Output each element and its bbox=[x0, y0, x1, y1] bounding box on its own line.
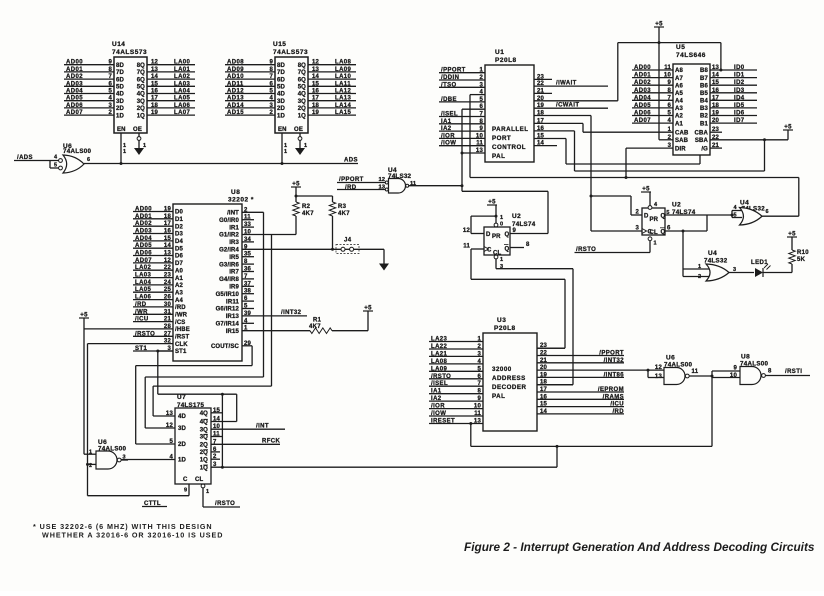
svg-text:AD07: AD07 bbox=[135, 258, 152, 264]
svg-text:AD05: AD05 bbox=[135, 243, 152, 249]
svg-text:U5: U5 bbox=[676, 44, 685, 51]
svg-text:CBA: CBA bbox=[695, 130, 709, 136]
svg-text:U15: U15 bbox=[273, 41, 286, 48]
svg-text:2Q: 2Q bbox=[200, 450, 208, 456]
svg-text:3D: 3D bbox=[277, 99, 285, 105]
svg-text:13: 13 bbox=[655, 374, 663, 380]
svg-text:AD01: AD01 bbox=[135, 214, 152, 220]
svg-text:C: C bbox=[183, 477, 188, 483]
svg-text:AD00: AD00 bbox=[135, 207, 152, 213]
svg-text:D2: D2 bbox=[175, 224, 183, 230]
svg-text:74LS32: 74LS32 bbox=[704, 258, 728, 265]
svg-text:IA1: IA1 bbox=[441, 119, 452, 125]
svg-text:9: 9 bbox=[513, 228, 517, 234]
svg-text:/ISEL: /ISEL bbox=[441, 112, 458, 118]
svg-text:R3: R3 bbox=[338, 204, 347, 210]
svg-text:/HBE: /HBE bbox=[175, 327, 190, 333]
svg-text:LA15: LA15 bbox=[335, 110, 352, 116]
svg-text:12: 12 bbox=[151, 60, 159, 66]
svg-text:D1: D1 bbox=[175, 217, 183, 223]
svg-text:8D: 8D bbox=[277, 63, 285, 69]
svg-text:0: 0 bbox=[500, 222, 503, 228]
svg-text:2D: 2D bbox=[178, 442, 186, 448]
svg-text:/IWAIT: /IWAIT bbox=[556, 81, 577, 87]
svg-text:B4: B4 bbox=[700, 99, 708, 105]
svg-text:25: 25 bbox=[164, 287, 172, 293]
svg-text:6Q: 6Q bbox=[137, 77, 145, 83]
svg-text:IR13: IR13 bbox=[226, 314, 240, 320]
svg-text:31: 31 bbox=[164, 309, 172, 315]
svg-text:AD14: AD14 bbox=[227, 103, 244, 109]
svg-text:C: C bbox=[648, 230, 653, 236]
svg-text:A7: A7 bbox=[675, 76, 683, 82]
svg-text:IA2: IA2 bbox=[441, 126, 452, 132]
svg-text:A3: A3 bbox=[675, 106, 683, 112]
svg-text:1D: 1D bbox=[277, 113, 285, 119]
svg-text:1D: 1D bbox=[116, 113, 124, 119]
svg-text:LA05: LA05 bbox=[135, 287, 152, 293]
svg-text:D6: D6 bbox=[175, 254, 183, 260]
svg-text:5: 5 bbox=[734, 213, 737, 219]
svg-text:AD03: AD03 bbox=[634, 88, 651, 94]
svg-text:2: 2 bbox=[635, 210, 639, 216]
svg-text:6Q: 6Q bbox=[298, 77, 306, 83]
svg-text:17: 17 bbox=[164, 221, 172, 227]
svg-text:LA12: LA12 bbox=[335, 89, 352, 95]
svg-text:AD06: AD06 bbox=[135, 251, 152, 257]
svg-text:32202 *: 32202 * bbox=[228, 197, 254, 204]
svg-text:19: 19 bbox=[312, 110, 320, 116]
svg-text:/RD: /RD bbox=[175, 305, 186, 311]
svg-text:LA03: LA03 bbox=[135, 273, 152, 279]
svg-text:15: 15 bbox=[164, 236, 172, 242]
svg-text:LA00: LA00 bbox=[174, 60, 191, 66]
svg-text:IA2: IA2 bbox=[431, 396, 442, 402]
svg-text:B1: B1 bbox=[700, 121, 708, 127]
svg-text:LA08: LA08 bbox=[431, 359, 448, 365]
svg-text:/DDIN: /DDIN bbox=[441, 75, 459, 81]
svg-text:/PPORT: /PPORT bbox=[599, 351, 624, 357]
svg-text:/CS: /CS bbox=[175, 320, 185, 326]
svg-text:LA10: LA10 bbox=[335, 74, 352, 80]
svg-text:ID7: ID7 bbox=[734, 118, 745, 124]
svg-text:/CWAIT: /CWAIT bbox=[556, 103, 579, 109]
svg-text:8: 8 bbox=[667, 88, 671, 94]
svg-text:LA02: LA02 bbox=[174, 74, 191, 80]
svg-text:LA01: LA01 bbox=[174, 67, 191, 73]
svg-text:1: 1 bbox=[500, 257, 503, 263]
svg-text:/IOR: /IOR bbox=[431, 404, 445, 410]
svg-text:/INT32: /INT32 bbox=[604, 358, 625, 364]
svg-text:4Q: 4Q bbox=[298, 92, 306, 98]
svg-text:AD04: AD04 bbox=[634, 95, 651, 101]
svg-text:R10: R10 bbox=[797, 250, 809, 256]
svg-text:12: 12 bbox=[379, 177, 385, 183]
svg-text:A1: A1 bbox=[175, 276, 183, 282]
svg-text:15: 15 bbox=[151, 81, 159, 87]
svg-text:LA04: LA04 bbox=[174, 89, 191, 95]
svg-text:AD12: AD12 bbox=[227, 89, 244, 95]
svg-text:9: 9 bbox=[667, 80, 671, 86]
svg-text:8: 8 bbox=[526, 242, 530, 248]
svg-text:AD02: AD02 bbox=[135, 221, 152, 227]
svg-text:ID4: ID4 bbox=[734, 95, 745, 101]
svg-text:LA06: LA06 bbox=[174, 103, 191, 109]
svg-text:14: 14 bbox=[712, 73, 720, 79]
svg-text:G5/IR10: G5/IR10 bbox=[216, 292, 240, 298]
svg-text:OE: OE bbox=[133, 127, 142, 133]
svg-text:10: 10 bbox=[474, 404, 482, 410]
svg-text:9: 9 bbox=[477, 396, 481, 402]
svg-text:4Q: 4Q bbox=[200, 420, 208, 426]
svg-text:LA21: LA21 bbox=[431, 351, 448, 357]
svg-text:14: 14 bbox=[312, 74, 320, 80]
svg-text:18: 18 bbox=[151, 103, 159, 109]
svg-text:8D: 8D bbox=[116, 63, 124, 69]
svg-text:2Q: 2Q bbox=[137, 106, 145, 112]
svg-text:12: 12 bbox=[655, 365, 663, 371]
svg-text:8Q: 8Q bbox=[137, 63, 145, 69]
svg-text:AD00: AD00 bbox=[634, 65, 651, 71]
svg-text:7: 7 bbox=[667, 95, 671, 101]
svg-text:IR9: IR9 bbox=[229, 285, 239, 291]
svg-text:3: 3 bbox=[108, 103, 112, 109]
svg-text:AD03: AD03 bbox=[66, 81, 83, 87]
svg-text:1: 1 bbox=[123, 149, 126, 155]
svg-text:B5: B5 bbox=[700, 91, 708, 97]
svg-text:AD02: AD02 bbox=[634, 80, 651, 86]
svg-text:EN: EN bbox=[117, 127, 126, 133]
svg-text:Q: Q bbox=[505, 247, 510, 253]
svg-text:3Q: 3Q bbox=[200, 427, 208, 433]
svg-text:/INT32: /INT32 bbox=[281, 310, 302, 316]
svg-text:PARALLEL: PARALLEL bbox=[492, 126, 529, 133]
svg-text:U8: U8 bbox=[741, 354, 750, 361]
svg-text:AD01: AD01 bbox=[66, 67, 83, 73]
svg-text:P20L8: P20L8 bbox=[495, 57, 517, 64]
svg-text:4: 4 bbox=[477, 359, 481, 365]
svg-text:16: 16 bbox=[312, 89, 320, 95]
svg-text:16: 16 bbox=[151, 89, 159, 95]
svg-text:11: 11 bbox=[474, 411, 481, 417]
svg-text:DIR: DIR bbox=[675, 146, 686, 152]
svg-text:D4: D4 bbox=[175, 239, 183, 245]
svg-text:7D: 7D bbox=[277, 70, 285, 76]
svg-text:OE: OE bbox=[294, 127, 303, 133]
svg-text:A8: A8 bbox=[675, 68, 683, 74]
svg-text:U1: U1 bbox=[495, 49, 504, 56]
svg-text:23: 23 bbox=[164, 273, 172, 279]
svg-text:LA04: LA04 bbox=[135, 280, 152, 286]
svg-text:/RSTI: /RSTI bbox=[785, 369, 802, 375]
svg-text:7Q: 7Q bbox=[137, 70, 145, 76]
svg-text:2: 2 bbox=[269, 110, 273, 116]
svg-text:AD09: AD09 bbox=[227, 67, 244, 73]
svg-text:LA23: LA23 bbox=[431, 337, 448, 343]
svg-text:IR11: IR11 bbox=[226, 299, 239, 305]
svg-text:B3: B3 bbox=[700, 106, 708, 112]
svg-text:74LS646: 74LS646 bbox=[676, 52, 706, 59]
svg-text:5Q: 5Q bbox=[137, 85, 145, 91]
svg-text:AD06: AD06 bbox=[66, 103, 83, 109]
svg-text:AD07: AD07 bbox=[634, 118, 651, 124]
svg-text:4Q: 4Q bbox=[137, 92, 145, 98]
svg-text:9: 9 bbox=[269, 60, 273, 66]
svg-text:2Q: 2Q bbox=[298, 106, 306, 112]
svg-text:IR5: IR5 bbox=[229, 255, 239, 261]
svg-text:16: 16 bbox=[712, 88, 720, 94]
svg-text:/INT: /INT bbox=[227, 211, 239, 217]
svg-text:8: 8 bbox=[269, 67, 273, 73]
svg-text:U2: U2 bbox=[512, 213, 521, 220]
svg-text:19: 19 bbox=[151, 110, 159, 116]
svg-text:D5: D5 bbox=[175, 246, 183, 252]
svg-text:14: 14 bbox=[164, 243, 172, 249]
svg-text:AD04: AD04 bbox=[66, 89, 83, 95]
svg-text:6: 6 bbox=[667, 226, 671, 232]
svg-text:CAB: CAB bbox=[675, 130, 689, 136]
svg-text:J4: J4 bbox=[344, 238, 352, 244]
svg-text:LA03: LA03 bbox=[174, 81, 191, 87]
svg-text:AD15: AD15 bbox=[227, 110, 244, 116]
svg-text:1: 1 bbox=[284, 149, 287, 155]
svg-text:U4: U4 bbox=[708, 250, 717, 257]
svg-text:G6/IR12: G6/IR12 bbox=[216, 307, 240, 313]
svg-text:IR1: IR1 bbox=[229, 225, 239, 231]
svg-text:IR15: IR15 bbox=[226, 329, 240, 335]
svg-text:/RSTO: /RSTO bbox=[431, 374, 451, 380]
svg-text:AD10: AD10 bbox=[227, 74, 244, 80]
svg-text:AD07: AD07 bbox=[66, 110, 83, 116]
svg-text:A2: A2 bbox=[175, 283, 183, 289]
svg-text:1: 1 bbox=[654, 241, 657, 247]
svg-text:AD06: AD06 bbox=[634, 111, 651, 117]
svg-text:13: 13 bbox=[151, 67, 159, 73]
svg-text:/WR: /WR bbox=[175, 313, 188, 319]
svg-text:LA13: LA13 bbox=[335, 96, 352, 102]
svg-text:4D: 4D bbox=[116, 92, 124, 98]
svg-text:20: 20 bbox=[712, 118, 720, 124]
svg-text:6: 6 bbox=[477, 374, 481, 380]
svg-text:11: 11 bbox=[463, 244, 470, 250]
svg-text:G4/IR8: G4/IR8 bbox=[219, 277, 239, 283]
svg-text:D: D bbox=[644, 214, 649, 220]
svg-text:3: 3 bbox=[635, 226, 639, 232]
svg-text:15: 15 bbox=[712, 80, 720, 86]
svg-text:11: 11 bbox=[692, 369, 699, 375]
svg-text:CONTROL: CONTROL bbox=[492, 144, 526, 151]
svg-text:4K7: 4K7 bbox=[338, 211, 350, 217]
svg-text:U14: U14 bbox=[112, 41, 125, 48]
svg-text:IRESET: IRESET bbox=[431, 419, 455, 425]
svg-text:5K: 5K bbox=[797, 257, 806, 263]
svg-text:PAL: PAL bbox=[492, 393, 505, 400]
svg-text:18: 18 bbox=[164, 214, 172, 220]
svg-text:/RSTO: /RSTO bbox=[135, 331, 155, 337]
svg-text:A2: A2 bbox=[675, 114, 683, 120]
svg-text:7: 7 bbox=[269, 74, 273, 80]
svg-text:G7/IR14: G7/IR14 bbox=[216, 322, 240, 328]
svg-text:B8: B8 bbox=[700, 68, 708, 74]
svg-text:30: 30 bbox=[164, 302, 172, 308]
svg-text:A4: A4 bbox=[175, 298, 183, 304]
svg-text:2: 2 bbox=[698, 274, 701, 280]
svg-text:32000: 32000 bbox=[492, 366, 512, 373]
svg-text:IR3: IR3 bbox=[229, 240, 239, 246]
svg-text:1Q: 1Q bbox=[298, 113, 306, 119]
svg-text:D3: D3 bbox=[175, 232, 183, 238]
svg-text:18: 18 bbox=[712, 103, 720, 109]
svg-text:AD05: AD05 bbox=[66, 96, 83, 102]
svg-text:G3/IR6: G3/IR6 bbox=[219, 262, 239, 268]
svg-text:13: 13 bbox=[164, 251, 172, 257]
svg-text:3: 3 bbox=[477, 351, 481, 357]
svg-text:SBA: SBA bbox=[695, 138, 709, 144]
svg-text:AD11: AD11 bbox=[227, 81, 244, 87]
svg-text:/WR: /WR bbox=[135, 309, 148, 315]
svg-text:74ALS573: 74ALS573 bbox=[273, 49, 308, 56]
svg-text:5Q: 5Q bbox=[298, 85, 306, 91]
svg-text:7: 7 bbox=[477, 381, 481, 387]
svg-text:2: 2 bbox=[477, 344, 481, 350]
svg-text:ID5: ID5 bbox=[734, 103, 745, 109]
svg-text:D7: D7 bbox=[175, 261, 183, 267]
svg-text:6D: 6D bbox=[277, 77, 285, 83]
svg-text:Q: Q bbox=[661, 230, 666, 236]
svg-text:7: 7 bbox=[108, 74, 112, 80]
svg-text:9: 9 bbox=[733, 366, 737, 372]
svg-text:7D: 7D bbox=[116, 70, 124, 76]
svg-text:LA07: LA07 bbox=[174, 110, 191, 116]
svg-text:7Q: 7Q bbox=[298, 70, 306, 76]
svg-text:/INT86: /INT86 bbox=[604, 372, 625, 378]
svg-text:ADDRESS: ADDRESS bbox=[492, 375, 526, 382]
svg-text:U6: U6 bbox=[666, 355, 675, 362]
svg-text:AD04: AD04 bbox=[135, 236, 152, 242]
svg-text:3Q: 3Q bbox=[137, 99, 145, 105]
svg-text:4D: 4D bbox=[178, 414, 186, 420]
svg-text:IR7: IR7 bbox=[229, 270, 239, 276]
svg-text:2D: 2D bbox=[277, 106, 285, 112]
svg-text:AD08: AD08 bbox=[227, 60, 244, 66]
svg-text:5: 5 bbox=[269, 89, 273, 95]
svg-text:9: 9 bbox=[108, 60, 112, 66]
svg-text:2Q: 2Q bbox=[200, 443, 208, 449]
svg-text:10: 10 bbox=[730, 373, 738, 379]
svg-text:6: 6 bbox=[766, 209, 769, 215]
svg-text:/RAMS: /RAMS bbox=[603, 394, 624, 400]
svg-text:B6: B6 bbox=[700, 83, 708, 89]
svg-text:4K7: 4K7 bbox=[309, 324, 321, 330]
svg-text:1: 1 bbox=[206, 489, 209, 495]
svg-text:RFCK: RFCK bbox=[262, 439, 281, 445]
svg-text:G0/IR0: G0/IR0 bbox=[219, 218, 239, 224]
svg-text:D0: D0 bbox=[175, 210, 183, 216]
svg-text:1Q: 1Q bbox=[200, 465, 208, 471]
svg-text:LA14: LA14 bbox=[335, 103, 352, 109]
svg-text:/RD: /RD bbox=[135, 302, 147, 308]
svg-text:U7: U7 bbox=[177, 394, 186, 401]
svg-text:EN: EN bbox=[278, 127, 287, 133]
svg-text:15: 15 bbox=[312, 81, 320, 87]
svg-text:12: 12 bbox=[164, 258, 172, 264]
svg-text:ID3: ID3 bbox=[734, 88, 745, 94]
svg-text:12: 12 bbox=[312, 60, 320, 66]
svg-text:U3: U3 bbox=[497, 317, 506, 324]
svg-text:R1: R1 bbox=[313, 318, 322, 324]
svg-text:DECODER: DECODER bbox=[492, 384, 526, 391]
svg-text:WHETHER A 32016-6 OR 32016-10: WHETHER A 32016-6 OR 32016-10 IS USED bbox=[42, 531, 223, 540]
svg-text:PAL: PAL bbox=[492, 153, 505, 160]
svg-text:A1: A1 bbox=[675, 121, 683, 127]
svg-text:74LS74: 74LS74 bbox=[512, 221, 536, 228]
svg-text:74ALS00: 74ALS00 bbox=[63, 148, 91, 155]
svg-text:5D: 5D bbox=[277, 85, 285, 91]
svg-text:A5: A5 bbox=[675, 91, 683, 97]
svg-text:/EPROM: /EPROM bbox=[598, 387, 624, 393]
svg-text:ID1: ID1 bbox=[734, 73, 745, 79]
svg-text:LA06: LA06 bbox=[135, 295, 152, 301]
svg-text:13: 13 bbox=[379, 185, 386, 191]
svg-text:LA09: LA09 bbox=[335, 67, 352, 73]
svg-text:22: 22 bbox=[164, 265, 172, 271]
svg-text:AD13: AD13 bbox=[227, 96, 244, 102]
svg-text:17: 17 bbox=[712, 95, 720, 101]
svg-text:Figure 2 - Interrupt Generatio: Figure 2 - Interrupt Generation And Addr… bbox=[464, 540, 815, 554]
svg-text:/PPORT: /PPORT bbox=[441, 68, 466, 74]
svg-text:LA22: LA22 bbox=[431, 344, 448, 350]
svg-text:5: 5 bbox=[108, 89, 112, 95]
svg-text:R2: R2 bbox=[302, 204, 311, 210]
svg-text:B7: B7 bbox=[700, 76, 708, 82]
svg-text:G2/IR4: G2/IR4 bbox=[219, 248, 239, 254]
svg-text:PR: PR bbox=[650, 217, 659, 223]
svg-text:/IOR: /IOR bbox=[441, 133, 455, 139]
svg-text:/G: /G bbox=[701, 146, 708, 152]
svg-text:Q: Q bbox=[661, 214, 666, 220]
svg-text:/ICU: /ICU bbox=[135, 317, 149, 323]
svg-text:11: 11 bbox=[664, 65, 671, 71]
svg-text:10: 10 bbox=[664, 73, 672, 79]
svg-text:18: 18 bbox=[312, 103, 320, 109]
svg-text:SAB: SAB bbox=[675, 138, 689, 144]
svg-text:2: 2 bbox=[108, 110, 112, 116]
svg-text:19: 19 bbox=[164, 207, 172, 213]
svg-text:13: 13 bbox=[312, 67, 320, 73]
svg-text:PR: PR bbox=[492, 234, 501, 240]
svg-text:27: 27 bbox=[164, 331, 172, 337]
svg-text:Q: Q bbox=[505, 232, 510, 238]
svg-text:6: 6 bbox=[108, 81, 112, 87]
svg-text:1Q: 1Q bbox=[200, 457, 208, 463]
svg-text:13: 13 bbox=[474, 419, 482, 425]
svg-text:1D: 1D bbox=[178, 458, 186, 464]
svg-text:4K7: 4K7 bbox=[302, 211, 314, 217]
svg-text:B2: B2 bbox=[700, 114, 708, 120]
svg-text:1: 1 bbox=[698, 264, 701, 270]
svg-text:3: 3 bbox=[269, 103, 273, 109]
svg-text:/ICU: /ICU bbox=[610, 402, 624, 408]
svg-text:A6: A6 bbox=[675, 83, 683, 89]
svg-text:LA02: LA02 bbox=[135, 265, 152, 271]
svg-text:6: 6 bbox=[269, 81, 273, 87]
svg-text:AD03: AD03 bbox=[135, 229, 152, 235]
svg-text:/RD: /RD bbox=[612, 409, 624, 415]
svg-text:4: 4 bbox=[667, 118, 671, 124]
svg-text:A4: A4 bbox=[675, 99, 683, 105]
svg-text:3Q: 3Q bbox=[200, 435, 208, 441]
svg-text:ID0: ID0 bbox=[734, 65, 745, 71]
